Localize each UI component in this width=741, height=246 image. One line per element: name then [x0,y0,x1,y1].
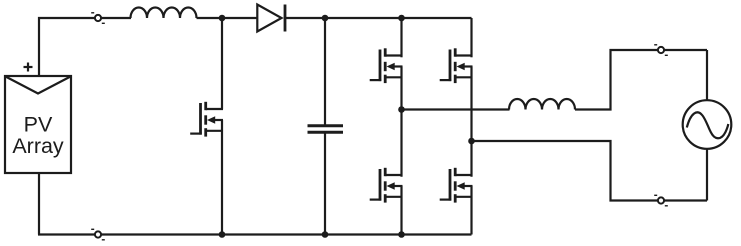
wire: PV negative lead down to DC- rail [38,173,40,235]
junction: right-leg output node [468,138,475,145]
MOSFET Q4 (bridge bottom-left) [370,168,403,203]
wire: PV positive lead up to DC+ rail [39,18,131,77]
MOSFET Q1 (boost switch) [190,102,223,137]
inductor L2 (output filter) [509,99,575,110]
junction: left-leg output node [398,106,405,113]
wire: bridge right-leg output to AC loop (down to AC bottom wire) [472,141,708,201]
MOSFET Q3 (bridge top-right) [440,48,473,83]
svg-text:PV: PV [24,113,53,137]
wire: D1 cathode along DC+ rail to bridge [285,17,472,19]
wire: AC top wire down to source [706,50,708,101]
wire: Q2 source to left-leg midpoint [400,77,402,109]
wire: Q3 source down right leg to Q5 drain (crosses output wire) [470,77,472,177]
junction: DC- at C1 [322,231,329,238]
svg-text:Array: Array [12,134,64,158]
MOSFET Q5 (bridge bottom-right) [440,168,473,203]
inductor L1 (boost) [131,8,197,19]
wire: DC+ rail down to C1 [324,18,326,125]
wire: source bottom down to AC bottom wire [706,149,708,201]
junction: DC+ at C1 [322,15,329,22]
wire: DC+ rail corner down to Q3 drain [470,18,472,57]
AC source (grid) [683,100,732,149]
junction: DC+ at left leg [398,15,405,22]
wire: DC+ rail down to Q2 drain [400,18,402,57]
terminal: AC port bottom [654,195,668,206]
wire: bridge left-leg output to filter inductor L2 [402,108,510,110]
wire: L1 to diode D1 anode [197,17,258,19]
wire: Q5 source down to DC- rail corner [470,197,472,235]
diode D1 [257,5,285,32]
junction: DC- at Q1 source [219,231,226,238]
wire: L2 to AC loop left vertical (up to AC top wire) [575,50,707,110]
wire: Q4 source down to DC- rail [400,197,402,235]
PV array block [5,76,71,173]
capacitor C1 (DC link) [308,126,344,132]
plus polarity label [24,63,33,72]
wire: left-leg midpoint down to Q4 drain [400,110,402,177]
junction: DC- at left leg [398,231,405,238]
wire: Q1 source down to DC- rail [221,131,223,235]
terminal: DC+ port [91,13,105,23]
MOSFET Q2 (bridge top-left) [370,48,403,83]
terminal: AC port top [654,45,668,56]
terminal: DC- port [91,229,105,240]
junction: boost node (L1/D1/Q1) [219,15,226,22]
wire: DC- bottom rail [38,233,472,235]
wire: C1 down to DC- rail [324,133,326,234]
wire: boost node down to Q1 drain [221,18,223,109]
